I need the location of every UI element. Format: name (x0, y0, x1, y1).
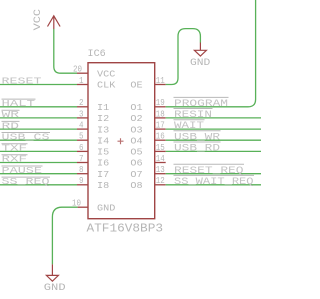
svg-text:SS_REQ: SS_REQ (2, 176, 51, 187)
svg-text:GND: GND (97, 202, 116, 213)
svg-text:O2: O2 (130, 113, 142, 124)
svg-text:12: 12 (156, 176, 165, 186)
pin 7 stub (77, 162, 88, 164)
wire net SS_WAIT_REQ (pin 12) (166, 184, 261, 186)
wire net GND from pin 10 (52, 207, 77, 264)
svg-text:OE: OE (130, 80, 143, 91)
pin 2 stub (77, 106, 88, 108)
wire net RESET_REQ (pin 13) (166, 173, 261, 175)
svg-text:I4: I4 (97, 135, 110, 146)
wire net TXF (pin 6) (0, 150, 77, 152)
pin 13 stub (155, 173, 166, 175)
svg-text:18: 18 (156, 109, 165, 119)
svg-text:5: 5 (79, 132, 84, 142)
svg-text:I2: I2 (97, 113, 109, 124)
svg-text:ATF16V8BP3: ATF16V8BP3 (87, 222, 164, 236)
wire net VCC to pin 20 (54, 29, 77, 73)
svg-text:O4: O4 (130, 135, 143, 146)
svg-text:WR: WR (2, 109, 20, 120)
origin cross of IC6 (118, 138, 124, 144)
GND supply symbol (bottom left) (46, 264, 58, 281)
wire net USB_WR (pin 16) (166, 139, 261, 141)
svg-text:RD: RD (2, 120, 20, 131)
pin 17 stub (155, 128, 166, 130)
GND supply symbol (top right) (194, 43, 206, 57)
pin 19 stub (155, 106, 166, 108)
svg-text:2: 2 (79, 98, 84, 108)
svg-text:I1: I1 (97, 102, 110, 113)
svg-text:7: 7 (79, 154, 84, 164)
pin 3 stub (77, 117, 88, 119)
wire net SS_REQ (pin 9) (0, 184, 77, 186)
wire net RESIN (pin 18) (166, 117, 261, 119)
IC6 body outline (88, 63, 155, 219)
svg-text:GND: GND (190, 58, 210, 69)
wire net HALT (pin 2) (0, 106, 77, 108)
svg-text:19: 19 (156, 98, 165, 108)
svg-text:16: 16 (156, 132, 165, 142)
pin 8 stub (77, 173, 88, 175)
wire net RD (pin 4) (0, 128, 77, 130)
svg-text:O1: O1 (130, 102, 143, 113)
pin 4 stub (77, 128, 88, 130)
svg-text:HALT: HALT (2, 98, 36, 109)
svg-text:14: 14 (156, 154, 165, 164)
pin 15 stub (155, 150, 166, 152)
pin 1 stub (77, 84, 88, 86)
wire net PAUSE (pin 8) (0, 173, 77, 175)
svg-text:GND: GND (44, 282, 66, 294)
VCC supply symbol arrow (48, 16, 61, 29)
svg-text:3: 3 (79, 109, 84, 119)
svg-text:I3: I3 (97, 124, 110, 135)
svg-text:17: 17 (156, 121, 165, 131)
svg-text:VCC: VCC (33, 9, 44, 30)
svg-text:O8: O8 (130, 180, 143, 191)
svg-text:PAUSE: PAUSE (2, 165, 43, 176)
pin 18 stub (155, 117, 166, 119)
pin 11 stub (155, 84, 166, 86)
pin 10 stub (78, 206, 88, 208)
svg-text:9: 9 (79, 176, 84, 186)
svg-text:IC6: IC6 (88, 48, 106, 60)
svg-text:TXF: TXF (2, 143, 28, 154)
wire net WR (pin 3) (0, 117, 77, 119)
pin 16 stub (155, 139, 166, 141)
svg-text:O3: O3 (130, 124, 143, 135)
wire net GND from pin 11 (166, 29, 201, 85)
svg-text:I5: I5 (97, 147, 110, 158)
pin 5 stub (77, 139, 88, 141)
svg-text:1: 1 (79, 76, 84, 86)
svg-text:15: 15 (156, 143, 165, 153)
svg-text:USB_RD: USB_RD (174, 143, 220, 155)
svg-text:I7: I7 (97, 169, 109, 180)
pin 20 stub (77, 72, 88, 74)
wire net WAIT (pin 17) (166, 128, 261, 130)
svg-text:11: 11 (156, 76, 165, 86)
wire net RXF (pin 7) (0, 162, 77, 164)
pin 12 stub (155, 184, 166, 186)
svg-text:RESET: RESET (2, 76, 43, 87)
svg-text:I8: I8 (97, 180, 110, 191)
svg-text:USB_CS: USB_CS (2, 131, 51, 142)
svg-text:VCC: VCC (97, 68, 116, 79)
wire net PROGRAM (pin 19) up off-page (166, 0, 256, 107)
svg-text:13: 13 (156, 165, 165, 175)
svg-text:6: 6 (79, 143, 84, 153)
svg-text:I6: I6 (97, 158, 110, 169)
svg-text:RXF: RXF (2, 154, 28, 165)
svg-text:SS_WAIT_REQ: SS_WAIT_REQ (174, 176, 254, 188)
svg-text:CLK: CLK (97, 80, 116, 91)
wire net RESET (pin 1) (0, 84, 77, 86)
pin 14 stub (unconnected) (155, 162, 166, 164)
svg-text:4: 4 (79, 121, 84, 131)
pin 6 stub (77, 150, 88, 152)
svg-text:O7: O7 (130, 169, 142, 180)
svg-text:O6: O6 (130, 158, 143, 169)
wire net USB_RD (pin 15) (166, 150, 261, 152)
svg-text:O5: O5 (130, 147, 143, 158)
pin 9 stub (77, 184, 88, 186)
wire net USB_CS (pin 5) (0, 139, 77, 141)
svg-text:8: 8 (79, 165, 84, 175)
